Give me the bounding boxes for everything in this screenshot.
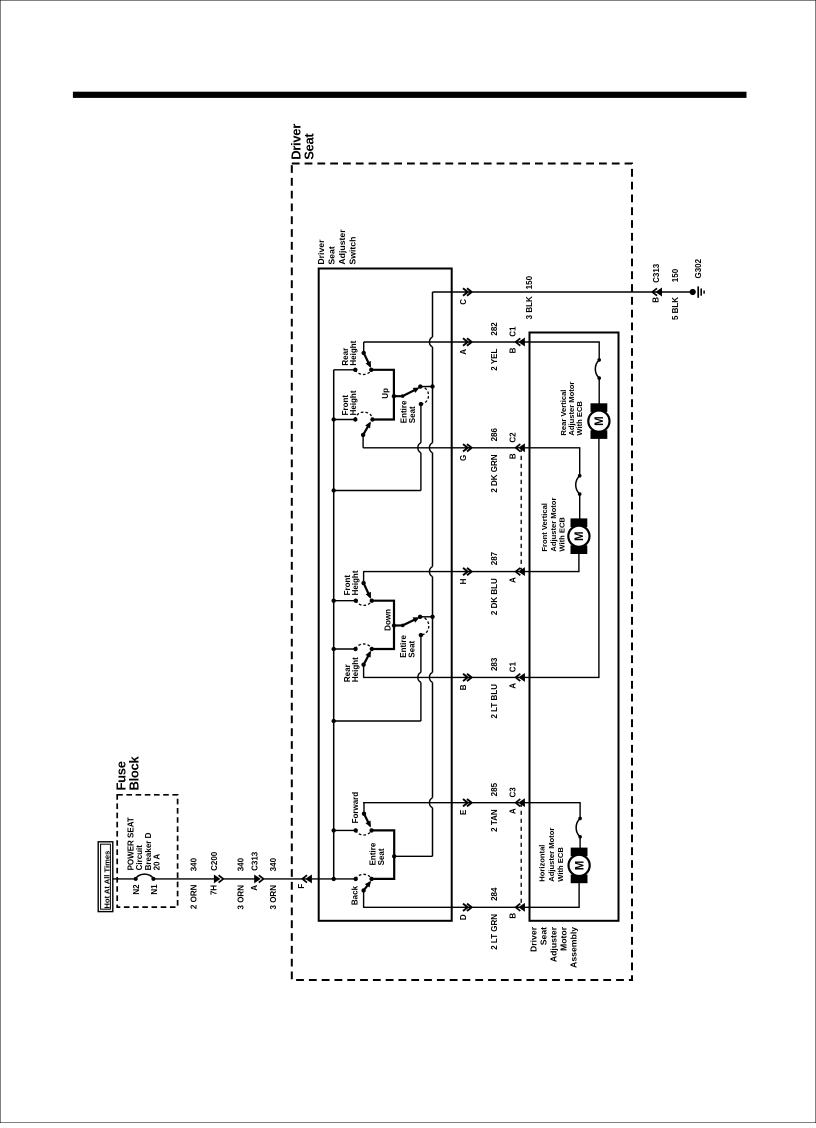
svg-text:340: 340 bbox=[269, 857, 278, 871]
svg-text:A: A bbox=[508, 577, 517, 583]
svg-text:B: B bbox=[508, 347, 517, 353]
node entire seat forward back bbox=[392, 854, 396, 858]
wire ECB to horizontal motor bbox=[579, 837, 581, 849]
connector C3 terminal A motor side bbox=[516, 799, 521, 806]
svg-text:Down: Down bbox=[384, 609, 393, 631]
wire terminal G 2 DK GRN 286 bbox=[363, 447, 529, 449]
svg-text:5 BLK: 5 BLK bbox=[671, 297, 680, 320]
svg-text:284: 284 bbox=[490, 887, 499, 901]
svg-text:G302: G302 bbox=[694, 258, 703, 278]
switch arm front height up bbox=[362, 435, 364, 448]
svg-text:C200: C200 bbox=[210, 851, 219, 871]
wire 2 ORN 340 from breaker bbox=[153, 878, 219, 880]
motor M rear vertical adjuster bbox=[591, 404, 607, 412]
svg-text:Up: Up bbox=[381, 388, 390, 399]
svg-text:Driver: Driver bbox=[316, 239, 326, 265]
wire front vertical motor return bbox=[530, 554, 579, 572]
switch contact entire seat down bbox=[418, 615, 422, 619]
svg-text:N2: N2 bbox=[132, 884, 141, 895]
node feed branch front height down bbox=[332, 599, 336, 603]
svg-text:N1: N1 bbox=[150, 884, 159, 895]
switch arm back bbox=[363, 891, 365, 908]
svg-text:3 ORN: 3 ORN bbox=[236, 885, 245, 910]
connector C200 bbox=[214, 875, 219, 882]
svg-text:Seat: Seat bbox=[408, 406, 417, 423]
connector C313 terminal A bbox=[255, 875, 260, 882]
connector C2 terminal B motor side bbox=[516, 444, 521, 451]
svg-text:With ECB: With ECB bbox=[575, 401, 584, 436]
svg-text:C313: C313 bbox=[251, 851, 260, 871]
connector C313 terminal B ground side bbox=[652, 288, 657, 295]
wire entire seat down to feed bbox=[420, 635, 422, 672]
switch arm down entire seat bbox=[392, 623, 396, 627]
svg-text:M: M bbox=[594, 416, 606, 426]
switch contact rear height down bbox=[353, 647, 357, 651]
wire terminal H 2 DK BLU 287 bbox=[363, 571, 529, 573]
wire rear vertical motor feed bbox=[530, 342, 600, 360]
svg-text:With ECB: With ECB bbox=[556, 847, 565, 882]
svg-text:287: 287 bbox=[490, 551, 499, 565]
svg-text:E: E bbox=[459, 809, 468, 815]
svg-text:340: 340 bbox=[189, 857, 198, 871]
wire ECB to rear vertical motor bbox=[598, 378, 600, 404]
connector C2 dashed link bbox=[520, 448, 522, 572]
svg-text:B: B bbox=[459, 684, 468, 690]
node feed branch forward bbox=[332, 828, 336, 832]
driver seat adjuster switch box bbox=[319, 269, 452, 921]
svg-text:Adjuster Motor: Adjuster Motor bbox=[549, 498, 558, 552]
switch arm front height down bbox=[363, 572, 365, 584]
svg-text:2 DK BLU: 2 DK BLU bbox=[490, 578, 499, 615]
switch arm up entire seat bbox=[392, 394, 396, 398]
label Hot At All Times box bbox=[98, 842, 113, 912]
svg-text:7H: 7H bbox=[210, 885, 219, 895]
svg-text:G: G bbox=[459, 455, 468, 461]
node feed branch entire seat down bbox=[332, 719, 336, 723]
svg-text:283: 283 bbox=[490, 657, 499, 671]
node return bus junction down bbox=[430, 615, 434, 619]
svg-text:C1: C1 bbox=[508, 661, 517, 672]
wire front vertical motor feed bbox=[530, 448, 580, 476]
wire terminal A 2 YEL 282 bbox=[364, 341, 530, 343]
svg-text:B: B bbox=[651, 297, 660, 303]
forward back common bar bbox=[372, 830, 395, 879]
wire horizontal motor return bbox=[530, 883, 580, 908]
motor M front vertical adjuster bbox=[571, 519, 587, 527]
svg-text:C1: C1 bbox=[508, 326, 517, 337]
wire 3 ORN 340 to C313 bbox=[223, 878, 259, 880]
connector terminal B motor side bbox=[516, 904, 521, 911]
svg-text:285: 285 bbox=[490, 782, 499, 796]
switch contact back bbox=[354, 877, 358, 881]
svg-text:Height: Height bbox=[351, 657, 360, 682]
svg-text:340: 340 bbox=[236, 857, 245, 871]
circuit breaker ECB rear vertical bbox=[597, 358, 601, 362]
svg-text:286: 286 bbox=[490, 428, 499, 442]
ground G302 bbox=[690, 289, 696, 295]
svg-text:282: 282 bbox=[490, 322, 499, 336]
svg-text:Seat: Seat bbox=[407, 640, 416, 657]
wire entire seat up to feed bbox=[420, 404, 422, 443]
node feed-F junction bbox=[332, 877, 336, 881]
svg-text:Seat: Seat bbox=[326, 246, 336, 264]
circuit breaker symbol bbox=[134, 877, 138, 881]
wire horizontal motor feed bbox=[530, 803, 581, 819]
connector terminal A motor side bbox=[516, 568, 521, 575]
up common bar bbox=[371, 370, 394, 420]
svg-text:2 DK GRN: 2 DK GRN bbox=[490, 454, 499, 492]
svg-text:Adjuster: Adjuster bbox=[549, 926, 559, 962]
svg-text:With ECB: With ECB bbox=[558, 517, 567, 552]
svg-text:2 TAN: 2 TAN bbox=[490, 809, 499, 832]
down common bar bbox=[372, 601, 394, 649]
svg-text:F: F bbox=[297, 884, 306, 889]
svg-text:Back: Back bbox=[350, 885, 359, 905]
wire entire seat down to return bus bbox=[420, 616, 432, 618]
svg-text:Motor: Motor bbox=[559, 926, 569, 951]
svg-text:Height: Height bbox=[351, 570, 360, 595]
circuit breaker ECB horizontal bbox=[578, 817, 582, 821]
node feed branch rear height up bbox=[334, 369, 356, 371]
svg-text:Block: Block bbox=[127, 756, 142, 791]
svg-text:Forward: Forward bbox=[351, 792, 360, 824]
node feed branch front height up bbox=[332, 417, 336, 421]
svg-text:Horizontal: Horizontal bbox=[538, 845, 547, 882]
svg-text:Adjuster: Adjuster bbox=[337, 229, 347, 265]
switch arm rear height up bbox=[363, 342, 365, 353]
svg-text:2 LT BLU: 2 LT BLU bbox=[490, 684, 499, 719]
switch arm forward bbox=[363, 803, 365, 814]
svg-text:Height: Height bbox=[349, 340, 358, 365]
svg-text:M: M bbox=[574, 531, 586, 541]
driver seat dashed box bbox=[292, 164, 632, 981]
svg-text:A: A bbox=[459, 349, 468, 355]
node feed branch entire seat up bbox=[332, 488, 336, 492]
return bus wire to terminal C bbox=[432, 292, 434, 337]
connector C1 terminal A motor side bbox=[516, 674, 521, 681]
svg-text:C: C bbox=[459, 299, 468, 305]
svg-text:D: D bbox=[459, 914, 468, 920]
switch contact rear height up bbox=[353, 368, 357, 372]
svg-text:Hot At All Times: Hot At All Times bbox=[103, 851, 112, 909]
node return bus junction up bbox=[430, 384, 434, 388]
motor M horizontal adjuster bbox=[571, 848, 587, 856]
page header rule bbox=[73, 92, 746, 97]
svg-text:150: 150 bbox=[525, 275, 534, 289]
wire terminal E 2 TAN 285 bbox=[363, 802, 529, 804]
svg-text:2 YEL: 2 YEL bbox=[490, 348, 499, 370]
feed bus wire bbox=[333, 370, 335, 879]
svg-text:3 BLK: 3 BLK bbox=[525, 296, 534, 319]
connector C3 dashed link bbox=[520, 803, 522, 908]
node feed branch rear height down bbox=[332, 647, 336, 651]
svg-text:Assembly: Assembly bbox=[569, 927, 579, 968]
wire feed from hot bus bbox=[113, 878, 136, 880]
svg-text:A: A bbox=[250, 885, 259, 891]
fuse block dashed box bbox=[117, 795, 177, 907]
wire terminal B 2 LT BLU 283 bbox=[363, 676, 529, 678]
svg-text:Adjuster Motor: Adjuster Motor bbox=[547, 828, 556, 882]
svg-text:Switch: Switch bbox=[348, 237, 358, 265]
driver seat adjuster motor assembly box bbox=[530, 333, 619, 921]
svg-text:Front Vertical: Front Vertical bbox=[540, 503, 549, 552]
svg-text:20 A: 20 A bbox=[152, 854, 161, 871]
svg-text:A: A bbox=[508, 683, 517, 689]
wire terminal C 3 BLK 150 bbox=[433, 291, 693, 293]
connector C1 terminal B motor side bbox=[516, 338, 521, 345]
wire entire seat to return bus bbox=[394, 855, 432, 857]
switch contact front height up bbox=[353, 417, 357, 421]
switch contact front height down bbox=[354, 599, 358, 603]
svg-text:150: 150 bbox=[671, 268, 680, 282]
wire 3 ORN 340 to driver seat bbox=[264, 878, 356, 880]
wire entire seat up to return bus bbox=[420, 386, 432, 388]
svg-text:2 ORN: 2 ORN bbox=[189, 884, 198, 909]
svg-text:B: B bbox=[508, 453, 517, 459]
svg-text:Seat: Seat bbox=[539, 927, 549, 945]
wire ECB to front vertical motor bbox=[579, 494, 581, 519]
svg-text:B: B bbox=[508, 913, 517, 919]
svg-text:Seat: Seat bbox=[377, 848, 386, 865]
svg-text:Seat: Seat bbox=[301, 133, 316, 160]
svg-text:3 ORN: 3 ORN bbox=[269, 885, 278, 910]
svg-text:C313: C313 bbox=[652, 263, 661, 283]
svg-text:A: A bbox=[508, 808, 517, 814]
circuit breaker ECB front vertical bbox=[578, 474, 582, 478]
wire rear vertical motor return bbox=[530, 438, 599, 677]
svg-text:Height: Height bbox=[349, 390, 358, 415]
svg-text:C2: C2 bbox=[508, 432, 517, 443]
svg-text:M: M bbox=[574, 861, 586, 871]
switch contact forward bbox=[354, 828, 358, 832]
svg-text:2 LT GRN: 2 LT GRN bbox=[490, 914, 499, 950]
switch contact entire seat up bbox=[418, 384, 422, 388]
svg-text:Driver: Driver bbox=[529, 926, 539, 952]
wire terminal D 2 LT GRN 284 bbox=[363, 906, 529, 908]
terminal F arrow bbox=[302, 875, 307, 882]
svg-text:C3: C3 bbox=[508, 787, 517, 798]
switch arm rear height down bbox=[363, 665, 365, 678]
svg-text:H: H bbox=[459, 578, 468, 584]
